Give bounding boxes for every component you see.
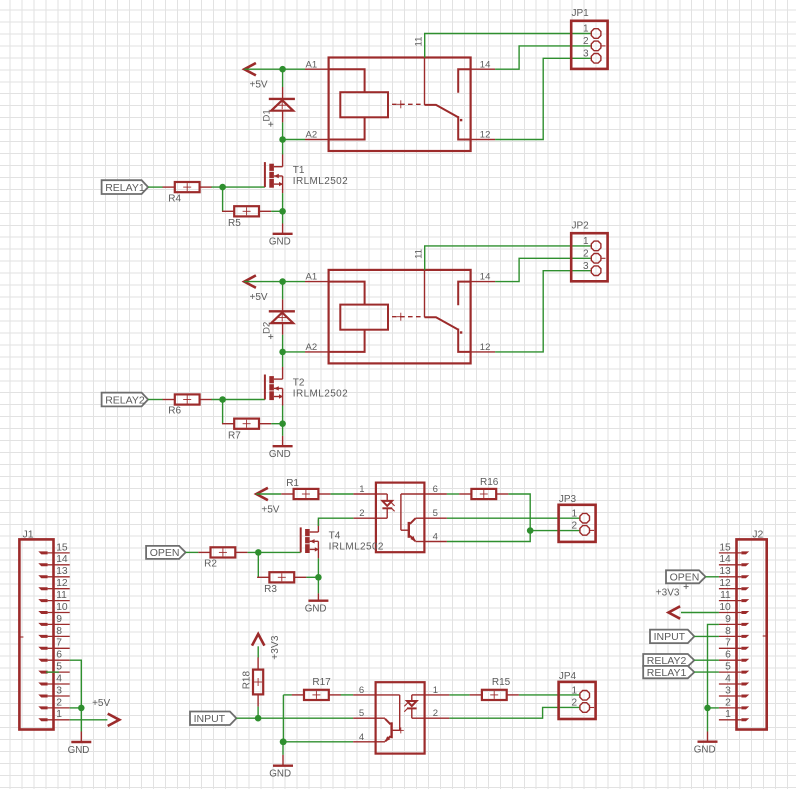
wire T4 source to ground node	[317, 558, 319, 577]
svg-text:8: 8	[56, 626, 62, 637]
svg-text:5: 5	[725, 662, 731, 673]
pin 12 of K2	[471, 342, 496, 353]
junction	[78, 705, 85, 712]
svg-text:2: 2	[359, 508, 364, 519]
pin 1 of opto U1	[353, 484, 376, 495]
power +3V3 symbol (input section)	[252, 634, 281, 660]
junction	[315, 574, 322, 581]
svg-text:6: 6	[725, 650, 731, 661]
svg-text:INPUT: INPUT	[194, 713, 226, 725]
connector JP2	[571, 220, 607, 281]
junction	[280, 739, 287, 746]
wire J1 pin2 to ground	[70, 707, 82, 709]
svg-text:9: 9	[56, 614, 62, 625]
pin 4 of opto U2	[353, 732, 376, 743]
svg-text:6: 6	[56, 650, 62, 661]
svg-text:1: 1	[571, 685, 577, 696]
junction	[279, 136, 286, 143]
net label INPUT	[190, 712, 236, 726]
svg-text:3: 3	[56, 685, 62, 696]
junction	[279, 66, 286, 73]
wire R17 node down to ground net	[282, 695, 284, 742]
svg-text:R4: R4	[168, 193, 181, 204]
pin 6 of opto U1	[424, 484, 447, 495]
svg-text:GND: GND	[269, 449, 291, 460]
svg-text:JP3: JP3	[559, 494, 577, 505]
resistor R5	[222, 206, 271, 229]
svg-text:R3: R3	[264, 584, 277, 595]
svg-text:2: 2	[571, 521, 577, 532]
svg-text:J1: J1	[23, 529, 34, 541]
diode D2	[262, 282, 295, 352]
svg-text:14: 14	[480, 272, 491, 283]
svg-text:5: 5	[56, 662, 62, 673]
resistor R17	[292, 677, 341, 700]
svg-text:4: 4	[433, 532, 438, 543]
svg-text:12: 12	[480, 130, 491, 141]
wire R3 to source node	[306, 576, 318, 578]
wire J2 pin2 to ground	[708, 707, 719, 709]
pin 5 of opto U1	[424, 508, 447, 519]
wire J2 pin9 to ground net	[708, 624, 719, 708]
wire R16 to node	[508, 494, 530, 531]
net label RELAY1	[102, 180, 149, 194]
svg-text:2: 2	[583, 36, 589, 47]
svg-text:R18: R18	[242, 671, 253, 690]
svg-text:12: 12	[480, 342, 491, 353]
wire +3V3 to R18	[257, 646, 259, 657]
connector J1	[19, 529, 69, 730]
svg-text:+3V3: +3V3	[656, 588, 680, 599]
svg-text:R2: R2	[204, 559, 217, 570]
net label INPUT (J2)	[650, 630, 694, 644]
svg-text:T4: T4	[329, 530, 341, 541]
net label RELAY2 (J2)	[643, 654, 694, 667]
svg-text:3: 3	[583, 261, 589, 272]
pin 1 of opto U2	[425, 685, 450, 696]
svg-text:OPEN: OPEN	[150, 547, 180, 559]
optocoupler U1	[376, 483, 425, 553]
svg-text:4: 4	[56, 673, 62, 684]
svg-text:1: 1	[583, 24, 589, 35]
wire K2 pin11 to JP2 pin1	[425, 246, 591, 270]
wire INPUT to J2 pin8	[694, 635, 719, 637]
power +5V symbol (K2 section)	[244, 275, 268, 303]
svg-text:T2: T2	[293, 377, 305, 388]
svg-text:R16: R16	[480, 477, 499, 488]
wire RELAY1 to J2 pin5	[694, 671, 719, 673]
wire R17 to opto pin6	[341, 694, 353, 696]
svg-text:JP2: JP2	[572, 220, 590, 231]
wire INPUT to opto pin5	[236, 717, 353, 719]
svg-text:10: 10	[719, 602, 731, 613]
resistor R1	[281, 478, 330, 499]
net label RELAY1 (J2)	[643, 666, 694, 679]
svg-text:A2: A2	[306, 342, 318, 353]
wire opto pin1 to R15	[449, 694, 469, 696]
svg-text:RELAY1: RELAY1	[105, 182, 145, 194]
svg-text:4: 4	[359, 732, 364, 743]
svg-text:9: 9	[725, 614, 731, 625]
pin 5 of opto U2	[353, 708, 376, 719]
svg-text:1: 1	[56, 709, 62, 720]
wire R2 to gate of T4	[248, 551, 301, 553]
svg-text:11: 11	[414, 37, 425, 47]
power +3V3 symbol (J2)	[656, 584, 689, 619]
pin 14 of K2	[471, 272, 496, 283]
ground symbol (J1)	[68, 708, 92, 756]
connector JP3	[559, 494, 596, 542]
svg-text:GND: GND	[305, 604, 327, 615]
junction	[279, 208, 286, 215]
svg-text:D2: D2	[262, 322, 273, 334]
svg-text:R6: R6	[168, 406, 181, 417]
svg-text:2: 2	[571, 698, 577, 709]
optocoupler U2 (mirrored)	[376, 682, 425, 753]
pin A1 of K1	[305, 68, 329, 70]
svg-text:IRLML2502: IRLML2502	[329, 541, 384, 552]
wire RELAY1 to R4	[148, 186, 163, 188]
svg-text:R15: R15	[492, 677, 511, 688]
diode D1	[262, 69, 295, 139]
svg-text:2: 2	[433, 708, 438, 719]
svg-text:7: 7	[725, 638, 731, 649]
power +5V symbol (opto section)	[256, 488, 280, 516]
wire K1 pin12 to JP1 pin3	[495, 58, 591, 139]
wire node to R5	[222, 187, 224, 211]
svg-text:GND: GND	[694, 745, 716, 756]
svg-text:T1: T1	[293, 165, 305, 176]
junction	[704, 705, 711, 712]
wire node to opto pin4	[447, 531, 530, 542]
net label OPEN (J2)	[666, 570, 706, 583]
svg-text:RELAY2: RELAY2	[105, 394, 145, 406]
svg-text:RELAY1: RELAY1	[647, 667, 687, 679]
svg-text:IRLML2502: IRLML2502	[293, 388, 348, 399]
svg-text:1: 1	[571, 508, 577, 519]
svg-text:R5: R5	[228, 218, 241, 229]
svg-text:GND: GND	[269, 769, 291, 780]
ground symbol (input section)	[269, 742, 293, 780]
svg-text:A2: A2	[306, 130, 318, 141]
wire K2 pin12 to JP2 pin3	[495, 271, 591, 352]
svg-text:6: 6	[433, 484, 438, 495]
pin 2 of opto U1	[353, 508, 376, 519]
svg-text:15: 15	[719, 542, 731, 553]
pin 12 of K1	[471, 130, 496, 141]
resistor R2	[198, 547, 247, 569]
wire +5V to node (K1 A1 net)	[244, 68, 305, 70]
wire RELAY2 to R6	[148, 399, 163, 401]
relay K1	[329, 58, 471, 152]
svg-text:10: 10	[56, 602, 68, 613]
wire RELAY2 to J2 pin6	[694, 659, 719, 661]
pin 14 of K1	[471, 59, 496, 70]
junction	[279, 278, 286, 285]
wire R15 to JP4 pin1	[519, 694, 580, 696]
svg-text:11: 11	[56, 590, 67, 601]
wire K2 pin14 to JP2 pin2	[495, 258, 591, 281]
svg-text:JP4: JP4	[559, 671, 577, 682]
svg-text:13: 13	[56, 566, 68, 577]
pin 6 of opto U2	[353, 685, 376, 696]
wire node to JP3 pin2	[530, 530, 580, 532]
wire OPEN to J2 pin13	[706, 576, 719, 578]
junction	[219, 396, 226, 403]
pin A1 of K2	[305, 281, 329, 283]
junction	[280, 739, 287, 746]
net label OPEN	[146, 546, 186, 559]
wire OPEN to R2	[186, 551, 199, 553]
ground symbol (K1 section)	[269, 211, 293, 247]
svg-text:R7: R7	[228, 430, 241, 441]
svg-text:D1: D1	[262, 109, 273, 121]
wire node down to R3	[257, 552, 259, 577]
connector JP1	[571, 8, 607, 69]
svg-text:1: 1	[725, 709, 731, 720]
junction	[255, 549, 262, 556]
ground symbol (T4 section)	[305, 577, 329, 614]
resistor R15	[470, 677, 519, 700]
svg-text:+5V: +5V	[250, 80, 268, 91]
svg-text:11: 11	[414, 249, 425, 259]
wire source to ground node	[282, 406, 284, 424]
power +5V symbol (J1)	[92, 698, 119, 726]
svg-text:14: 14	[719, 554, 731, 565]
resistor R6	[163, 394, 212, 416]
resistor R17 feed wire	[283, 694, 292, 696]
svg-text:6: 6	[359, 685, 364, 696]
power +5V symbol (K1 section)	[244, 63, 268, 91]
svg-text:1: 1	[433, 685, 438, 696]
ground symbol (K2 section)	[269, 424, 293, 460]
wire R5 to source	[271, 210, 282, 212]
svg-text:7: 7	[56, 638, 62, 649]
resistor R7	[222, 419, 271, 442]
wire +3V3 to J2 pin10	[681, 612, 719, 614]
wire ground net to opto pin4	[283, 741, 353, 743]
svg-text:R17: R17	[312, 677, 331, 688]
svg-text:OPEN: OPEN	[670, 572, 700, 584]
svg-text:IRLML2502: IRLML2502	[293, 176, 348, 187]
svg-text:+5V: +5V	[250, 292, 268, 303]
svg-text:R1: R1	[286, 478, 299, 489]
transistor T2 IRLML2502	[265, 367, 348, 406]
transistor T1 IRLML2502	[265, 154, 348, 193]
svg-text:11: 11	[720, 590, 731, 601]
svg-text:+5V: +5V	[261, 504, 279, 515]
stub wire J1 pin5	[46, 671, 59, 673]
junction	[527, 527, 534, 534]
connector JP4	[559, 671, 596, 719]
wire R1 to opto pin1	[331, 493, 354, 495]
wire +5V to R1	[256, 493, 281, 495]
svg-text:12: 12	[56, 578, 68, 589]
junction	[279, 420, 286, 427]
junction	[279, 349, 286, 356]
svg-text:5: 5	[433, 508, 438, 519]
wire source to ground node	[282, 193, 284, 211]
svg-text:+3V3: +3V3	[270, 635, 281, 660]
ground symbol (J2)	[694, 708, 718, 756]
svg-text:2: 2	[56, 697, 62, 708]
svg-text:8: 8	[725, 626, 731, 637]
svg-text:+5V: +5V	[92, 698, 110, 709]
wire J1 pin1 to +5V	[70, 719, 108, 721]
wire +5V to node (K2 A1 net)	[244, 281, 305, 283]
net label RELAY2	[102, 393, 149, 407]
relay K2	[329, 270, 471, 364]
svg-text:1: 1	[583, 236, 589, 247]
resistor R4	[163, 182, 212, 204]
svg-text:1: 1	[359, 484, 364, 495]
pin 4 of opto U1	[424, 532, 447, 543]
wire T4 drain to opto pin2	[318, 518, 353, 526]
svg-text:13: 13	[719, 566, 731, 577]
connector J2	[719, 529, 767, 730]
svg-text:12: 12	[719, 578, 731, 589]
wire K1 pin11 to JP1 pin1	[425, 34, 591, 58]
wire opto pin2 to JP4 pin2	[449, 707, 579, 718]
wire A2 net	[283, 351, 305, 353]
pin A2 of K1	[305, 139, 329, 141]
svg-text:15: 15	[56, 542, 68, 553]
svg-text:GND: GND	[269, 237, 291, 248]
wire R6 to gate of T2	[211, 399, 265, 401]
svg-text:A1: A1	[306, 59, 318, 70]
svg-text:JP1: JP1	[572, 8, 590, 19]
wire R4 to gate of T1	[211, 186, 265, 188]
svg-text:A1: A1	[306, 272, 318, 283]
wire R7 to source	[271, 423, 282, 425]
wire drain to A2 node	[282, 352, 284, 367]
wire K1 pin14 to JP1 pin2	[495, 46, 591, 69]
resistor R18	[242, 657, 264, 706]
svg-text:2: 2	[725, 697, 731, 708]
svg-text:4: 4	[725, 673, 731, 684]
pin 2 of opto U2	[425, 708, 450, 719]
resistor R16	[459, 477, 508, 499]
transistor T4 IRLML2502	[301, 520, 384, 559]
resistor R3	[257, 572, 306, 595]
svg-text:3: 3	[725, 685, 731, 696]
svg-text:2: 2	[583, 248, 589, 259]
wire J1 pin6 to ground net	[70, 660, 82, 708]
junction	[255, 715, 262, 722]
wire opto pin6 to R16	[447, 493, 459, 495]
svg-text:14: 14	[56, 554, 68, 565]
wire drain to A2 node	[282, 140, 284, 155]
svg-text:14: 14	[480, 59, 491, 70]
svg-text:3: 3	[583, 48, 589, 59]
junction	[219, 184, 226, 191]
svg-text:J2: J2	[752, 529, 763, 541]
wire R18 to input node	[257, 707, 259, 719]
wire opto pin5 to JP3 pin1	[447, 517, 580, 519]
svg-text:5: 5	[359, 708, 364, 719]
svg-text:INPUT: INPUT	[654, 631, 686, 643]
wire A2 net	[283, 139, 305, 141]
svg-text:GND: GND	[68, 745, 90, 756]
wire node to R7	[222, 400, 224, 424]
pin A2 of K2	[305, 351, 329, 353]
